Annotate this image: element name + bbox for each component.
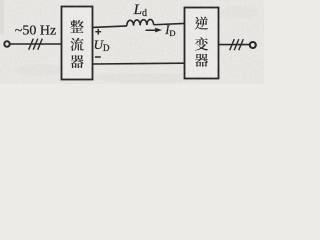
wire: DC return (rectifier - to inverter) <box>93 62 185 65</box>
polarity plus sign <box>95 31 101 33</box>
rectifier block (整流器) <box>62 7 93 80</box>
inverter label char 逆 <box>195 17 208 30</box>
wire: AC source to rectifier <box>10 43 62 45</box>
left AC input terminal (node) <box>4 41 9 46</box>
three-phase marks on output wire <box>230 39 244 50</box>
inductor Ld coil <box>127 19 154 26</box>
polarity minus sign <box>95 56 101 58</box>
inverter label char 变 <box>195 37 208 50</box>
inverter block (逆变器) <box>185 8 219 79</box>
wire: rectifier + output to inductor <box>93 26 128 28</box>
three-phase marks on AC input wire <box>29 39 43 50</box>
rectifier label char 流 <box>70 38 83 51</box>
wire: inductor to inverter <box>154 23 185 24</box>
current direction arrow ID <box>146 29 157 31</box>
inverter label char 器 <box>195 54 208 67</box>
rectifier label char 器 <box>70 55 83 68</box>
rectifier label char 整 <box>70 20 84 33</box>
right AC output terminal (node) <box>250 42 256 48</box>
wire: inverter AC output <box>219 44 251 46</box>
